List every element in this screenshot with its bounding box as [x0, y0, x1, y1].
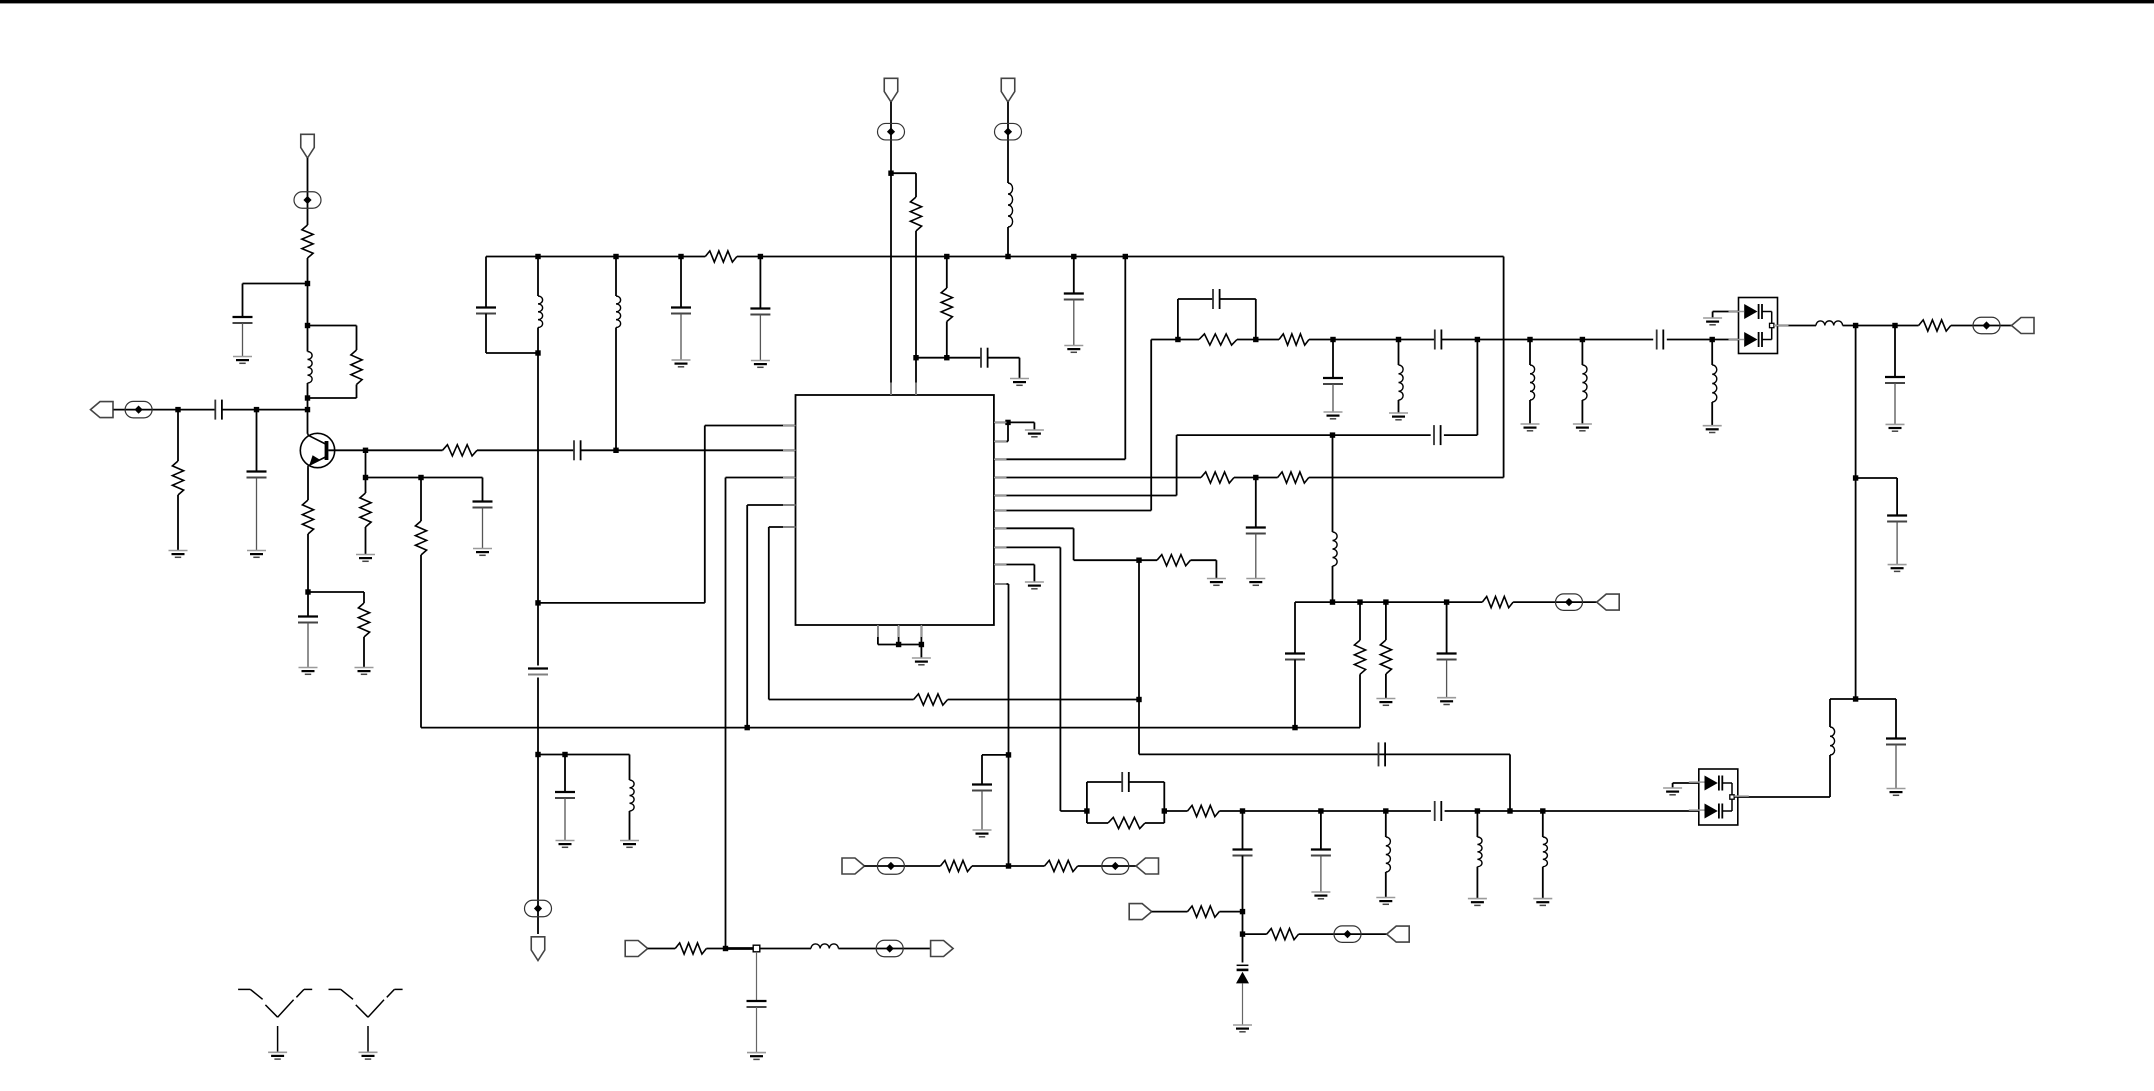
capacitor C21 — [1285, 654, 1305, 660]
capacitor C26 — [1233, 850, 1253, 856]
port P6 — [1597, 594, 1620, 610]
wire y435 link — [1177, 434, 1431, 436]
ground G31 — [1233, 1025, 1252, 1032]
wire R22 to C24series — [1219, 810, 1431, 812]
wire node S row — [916, 357, 981, 359]
wire node BD to L16 — [1830, 699, 1856, 727]
capacitor C13 — [1064, 294, 1084, 300]
U1 pin stubs — [783, 383, 1007, 638]
resistor R21 — [1108, 817, 1145, 828]
wire node AE up-link — [1476, 340, 1478, 436]
node AA — [1175, 337, 1180, 342]
capacitor C8 — [528, 669, 548, 675]
wire C30 to ground — [1895, 745, 1897, 789]
inductor L8 — [1582, 365, 1587, 400]
wire L15 to R28 — [1843, 325, 1919, 327]
wire R12 to node T — [948, 699, 1139, 701]
resistor R23 — [1188, 906, 1220, 917]
wire U1 pin R7 staircase — [994, 528, 1157, 560]
capacitor C20 — [1434, 425, 1441, 445]
wire C12series to ground — [988, 358, 1020, 379]
wire C6series to U1 pin — [581, 449, 796, 451]
wire L10 to rail — [1332, 566, 1334, 602]
node S2 — [944, 355, 949, 360]
capacitor C5 — [473, 502, 493, 508]
wire node R to R10 — [891, 173, 916, 197]
wire L6 to ground — [1398, 400, 1400, 413]
wire U1 pin R6 staircase — [994, 340, 1151, 511]
node AO — [1162, 808, 1167, 813]
wire node AW to R24 — [1243, 933, 1267, 935]
node Y2 — [919, 642, 924, 647]
wire node AG to L8 — [1581, 340, 1583, 366]
ground G13 — [1064, 346, 1083, 353]
dual FET switch X1 — [1739, 298, 1778, 354]
wire R26 to P10 — [1078, 865, 1136, 867]
inductor L16 — [1830, 727, 1835, 755]
ground G11 — [751, 361, 770, 368]
wire U1 pin L4 staircase — [747, 505, 795, 728]
wire L14 to P12 — [838, 948, 930, 950]
ground G32 — [747, 1053, 766, 1060]
node N3 — [678, 254, 683, 259]
wire node BD to C30 — [1856, 699, 1896, 739]
node J — [418, 475, 423, 480]
node X — [1006, 752, 1011, 757]
wire L3 to ground — [629, 811, 631, 841]
ground G23 — [1573, 424, 1592, 431]
antenna ANT2 — [329, 989, 403, 1051]
wire node AQ to C25 — [1320, 811, 1322, 850]
resistor R25 — [940, 860, 972, 871]
wire R5 to ground — [363, 637, 365, 668]
ground G22 — [1521, 424, 1540, 431]
wire node H down — [365, 450, 367, 477]
capacitor C25 — [1311, 850, 1331, 856]
wire node AU to L13 — [1542, 811, 1544, 837]
node N4 — [758, 254, 763, 259]
wire C4 to ground — [307, 623, 309, 668]
ground G2 — [169, 551, 188, 558]
capacitor C28 — [1885, 377, 1905, 383]
wire L9 to ground — [1711, 402, 1713, 426]
IC U1 — [796, 395, 994, 625]
resistor R26 — [1045, 860, 1078, 871]
wire L13 to ground — [1542, 867, 1544, 899]
capacitor C6 — [574, 440, 581, 460]
wire R8 to C6series — [477, 449, 574, 451]
ground G10 — [672, 360, 691, 367]
node AM — [1444, 599, 1449, 604]
capacitor C22 — [1437, 654, 1457, 660]
wire node Q to C9 — [564, 755, 566, 793]
wire C19 to ground — [1332, 384, 1334, 412]
wire RC2 cap branch — [1087, 782, 1122, 811]
inductor L2 — [538, 296, 543, 328]
dual FET switch X2 — [1699, 769, 1738, 825]
resistor R19 — [1354, 640, 1365, 674]
wire node AX to R26 — [1009, 865, 1045, 867]
wire R14 to bus corner — [1309, 257, 1504, 478]
inductor L6 — [1399, 365, 1404, 400]
wire C11 to ground — [759, 315, 761, 361]
wire y339 line left end — [1151, 339, 1199, 341]
wire C3 to ground — [256, 478, 258, 551]
ground G26 — [1437, 698, 1456, 705]
node AF — [1527, 337, 1532, 342]
node O — [535, 600, 540, 605]
node L — [1292, 725, 1297, 730]
wire R1 down through node A — [307, 258, 309, 352]
wire node W down to chain — [1139, 560, 1510, 754]
wire node I to C5 — [366, 478, 483, 502]
wire RC2 res branch — [1087, 811, 1108, 823]
wire U1 pin L5 staircase — [769, 527, 796, 700]
node E — [175, 407, 180, 412]
wire C15 to ground — [981, 791, 983, 831]
wire U1 pin R1 to ground net — [994, 422, 1034, 429]
port P5 — [1001, 78, 1015, 102]
wire node AL to R20 — [1385, 602, 1387, 640]
port P10 — [1136, 858, 1159, 874]
test point TP4 — [878, 123, 905, 140]
X1 X2 pin stubs — [1689, 312, 1789, 811]
resistor R6 — [360, 493, 371, 527]
resistor R24 — [1267, 929, 1299, 940]
wire node BC to C29 — [1856, 478, 1898, 516]
port P3 — [531, 937, 545, 961]
node BB — [1892, 323, 1897, 328]
capacitor C16 — [1379, 742, 1386, 766]
node I — [363, 475, 368, 480]
wire node AI to L10 — [1332, 435, 1334, 532]
node K — [745, 725, 750, 730]
wire node AO to R22 — [1164, 810, 1187, 812]
wire bus right section — [737, 256, 1504, 258]
antenna ANT1 — [238, 989, 312, 1051]
wire node B to R2 — [308, 326, 357, 351]
node AI — [1330, 432, 1335, 437]
port P2 — [91, 402, 114, 418]
node N8 — [1123, 254, 1128, 259]
ground G21 — [1389, 413, 1408, 420]
wire RC loop right — [1220, 299, 1256, 340]
ground G33 — [1703, 318, 1722, 325]
wire node AV to AW — [1242, 912, 1244, 935]
wire C10 to ground — [680, 314, 682, 361]
wire R23 to node AV — [1219, 911, 1242, 913]
wire R19 to bias rail — [1359, 674, 1361, 727]
wire L4 to node M — [615, 328, 617, 451]
test point TP3 — [525, 900, 552, 917]
wire R13 to R14 — [1234, 477, 1278, 479]
wire node U to pin R2 — [994, 422, 1008, 441]
wire node F to C3 — [256, 410, 258, 472]
wire R18 to P6 — [1513, 601, 1597, 603]
capacitor C29 — [1887, 516, 1907, 522]
wire L11 to ground — [1385, 872, 1387, 898]
node BA — [1853, 323, 1858, 328]
node U — [1005, 420, 1010, 425]
ground G7 — [356, 555, 375, 562]
wire bus to C10 — [680, 257, 682, 308]
capacitor C7 — [476, 308, 496, 314]
ground G6 — [473, 549, 492, 556]
test point TP7 — [877, 858, 904, 875]
resistor R16 — [1199, 334, 1237, 345]
wire Q1 base to node H — [328, 449, 365, 451]
wire L8 to ground — [1581, 400, 1583, 424]
node N2 — [613, 254, 618, 259]
wire U1 pin R9 to ground — [994, 565, 1034, 582]
node AZ (open square) — [753, 945, 760, 952]
node AT — [1507, 808, 1512, 813]
wire U1 pin R10 staircase — [994, 584, 1009, 866]
inductor L12 — [1477, 837, 1482, 867]
node AW — [1240, 931, 1245, 936]
resistor R2 — [351, 350, 362, 385]
port P4 — [884, 78, 898, 102]
node AB — [1253, 337, 1258, 342]
wire R28 to P13 — [1951, 325, 2012, 327]
node C — [305, 395, 310, 400]
capacitor C9 — [555, 792, 575, 798]
port P11 — [625, 941, 648, 957]
wire node H to R8 — [366, 449, 443, 451]
node V — [1253, 475, 1258, 480]
wire R16 to node AB — [1237, 339, 1279, 341]
capacitor C27 — [747, 1001, 767, 1007]
port P13 — [2012, 318, 2035, 334]
wire C7 to node N — [486, 314, 538, 354]
port P9 — [842, 858, 865, 874]
wire P2 to C2series — [114, 409, 216, 411]
inductor L11 — [1386, 837, 1391, 872]
wire R10 to U1 top pin 2 — [915, 231, 917, 395]
inductor L4 — [616, 296, 621, 328]
top border bar — [0, 0, 2154, 3]
node S — [913, 355, 918, 360]
resistor R15 — [1157, 555, 1191, 566]
node AR — [1383, 808, 1388, 813]
capacitor C24 — [1435, 801, 1442, 821]
wire node AM to C22 — [1446, 602, 1448, 653]
wire C25 to ground — [1320, 856, 1322, 893]
test point TP1 — [294, 192, 321, 209]
capacitor C1 — [233, 317, 253, 323]
test point TP10 — [1556, 594, 1583, 611]
node BD — [1853, 696, 1858, 701]
resistor R9 — [705, 251, 737, 262]
wire R7 to bias rail — [421, 555, 1360, 728]
test point TP11 — [1334, 926, 1361, 943]
inductor L14 — [811, 944, 838, 949]
wire bus to C13 — [1073, 257, 1075, 294]
wire node BC down — [1855, 478, 1857, 699]
wire node E to R3 — [177, 410, 179, 461]
node P — [535, 752, 540, 757]
node AK — [1357, 599, 1362, 604]
wire R4 to node G — [307, 534, 309, 592]
capacitor C18 — [1657, 330, 1664, 350]
wire U1 pin R8 staircase — [994, 547, 1087, 811]
resistor R1 — [302, 225, 313, 258]
wire node AC to C19 — [1332, 340, 1334, 379]
wire C5 to ground — [482, 508, 484, 549]
wire node G to R5 — [308, 592, 364, 603]
capacitor C18a — [1435, 330, 1442, 350]
wire P7 to R23 — [1152, 911, 1188, 913]
wire node AY to node AZ (thick) — [726, 947, 757, 950]
capacitor C3 — [247, 472, 267, 478]
wire L7 to ground — [1529, 400, 1531, 424]
node N — [535, 350, 540, 355]
resistor R11 — [941, 288, 952, 322]
ground G17 — [1025, 582, 1044, 589]
node N6 — [1005, 254, 1010, 259]
ground G4 — [299, 668, 318, 675]
wire C24series to X2 — [1445, 810, 1699, 812]
node G — [305, 589, 310, 594]
inductor L13 — [1543, 837, 1548, 867]
wire node BB to C28 — [1894, 326, 1896, 378]
resistor R10 — [910, 197, 921, 231]
wire C1 to ground — [242, 323, 244, 357]
node A — [305, 281, 310, 286]
wire R27 to node AY — [706, 948, 725, 950]
ground G36 — [1887, 789, 1906, 796]
wire L16 to X2 out — [1738, 755, 1830, 797]
node F — [254, 407, 259, 412]
inductor L3 — [630, 780, 635, 811]
capacitor C15 — [972, 785, 992, 791]
node Y1 — [896, 642, 901, 647]
node AU — [1540, 808, 1545, 813]
wire Q1 emitter to R4 — [307, 468, 309, 501]
wire node AZ to L14 — [760, 948, 811, 950]
wire node AK to R19 — [1359, 602, 1361, 640]
capacitor C2 — [215, 400, 222, 420]
inductor L9 — [1712, 365, 1717, 402]
node D — [305, 407, 310, 412]
wire chain down to RF line 2 — [1509, 754, 1511, 811]
wire RC2 cap branch right — [1129, 782, 1165, 811]
ground G34 — [1886, 424, 1905, 431]
capacitor C17 — [1213, 289, 1220, 309]
node N5 — [944, 254, 949, 259]
node B — [305, 323, 310, 328]
wire P1 to R1 — [307, 158, 309, 225]
node AG — [1580, 337, 1585, 342]
ground G19 — [912, 658, 931, 665]
wire X1 gnd pin — [1713, 312, 1739, 318]
inductor L10 — [1333, 532, 1338, 566]
ground G28 — [1376, 898, 1395, 905]
node AH — [1710, 337, 1715, 342]
wire rail left end to C21 — [1294, 602, 1296, 653]
inductor L5 — [1008, 183, 1013, 227]
wire D1 to ground — [1242, 983, 1244, 1024]
node AS — [1475, 808, 1480, 813]
node M — [613, 448, 618, 453]
inductor L7 — [1530, 365, 1535, 400]
ground G25 — [1376, 699, 1395, 706]
wire node AF to L7 — [1529, 340, 1531, 366]
wire C9 to ground — [564, 798, 566, 841]
node T — [1136, 697, 1141, 702]
wire U1 pin R4 line — [994, 477, 1201, 479]
wire C13 to ground — [1073, 300, 1075, 346]
wire node AH to L9 — [1711, 340, 1713, 366]
test point TP5 — [995, 123, 1022, 140]
ground G14 — [1025, 430, 1044, 437]
resistor R20 — [1380, 640, 1391, 674]
node AE — [1475, 337, 1480, 342]
wire node AS to L12 — [1476, 811, 1478, 837]
wire X1 out to L15 — [1778, 325, 1817, 327]
wire U1 pin R5 staircase — [994, 435, 1177, 495]
test point TP6 — [1973, 317, 2000, 334]
wire R20 to ground — [1385, 674, 1387, 699]
wire node V to C14 — [1255, 478, 1257, 528]
wire node A to C1 — [243, 284, 308, 318]
wire C27 to ground — [756, 1007, 758, 1053]
wire C29 to ground — [1896, 522, 1898, 565]
wire L2 to node N — [537, 328, 539, 354]
wire rail — [1295, 601, 1482, 603]
wire C26 to node AV — [1242, 856, 1244, 912]
wire P11 to R27 — [648, 948, 676, 950]
node AL — [1383, 599, 1388, 604]
wire C18series to X1 — [1667, 339, 1739, 341]
node BC — [1853, 475, 1858, 480]
wire bus to C11 — [759, 257, 761, 309]
node AN — [1084, 808, 1089, 813]
ground G-ANT2 — [359, 1052, 378, 1059]
ground G9 — [620, 841, 639, 848]
wire node P to P3 — [537, 755, 539, 935]
ground G35 — [1888, 565, 1907, 572]
ground G16 — [1207, 579, 1226, 586]
wire to L3 — [629, 755, 631, 781]
resistor R12 — [914, 694, 948, 705]
ground G27 — [1311, 892, 1330, 899]
wire C8series down — [537, 678, 539, 755]
test point TP2 — [125, 401, 152, 418]
wire R11 to node S — [946, 322, 948, 358]
resistor R28 — [1919, 320, 1951, 331]
wire U1 bottom pins — [878, 625, 922, 645]
ground G24 — [1703, 426, 1722, 433]
varactor diode D1 — [1236, 965, 1249, 983]
ground G-ANT1 — [268, 1052, 287, 1059]
wire bus to L2 — [537, 257, 539, 297]
node AP — [1240, 808, 1245, 813]
wire P9 to R25 — [865, 865, 941, 867]
resistor R5 — [358, 603, 369, 637]
test point TP8 — [1102, 858, 1129, 875]
ground G5 — [355, 668, 374, 675]
wire bus to L4 — [615, 257, 617, 297]
capacitor C12 — [981, 348, 988, 368]
wire node J to R7 — [420, 478, 422, 522]
resistor R13 — [1201, 472, 1234, 483]
wire R24 to P8 — [1299, 933, 1387, 935]
capacitor C10 — [671, 308, 691, 314]
wire bus left end to C7 — [485, 257, 487, 308]
node AY — [723, 946, 728, 951]
resistor R14 — [1278, 472, 1309, 483]
